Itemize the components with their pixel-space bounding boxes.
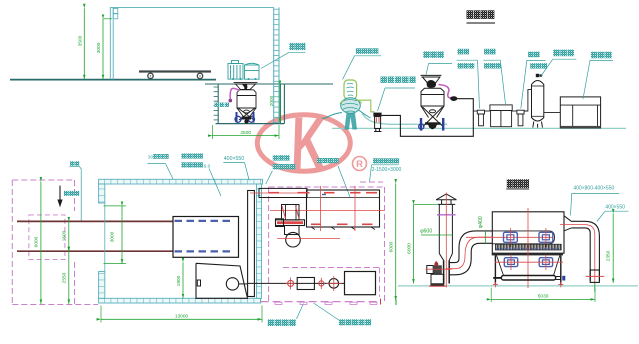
label compressor (591, 52, 598, 59)
pit machine blue frame/wheels (236, 112, 238, 123)
dim 2350 (612, 214, 614, 284)
dim 1800 (182, 262, 184, 298)
svg-text:1800: 1800 (176, 275, 182, 286)
air tank (532, 81, 544, 122)
flexible coupling red (288, 280, 294, 286)
svg-text:3000: 3000 (110, 231, 116, 242)
dim 6000 plan left (40, 182, 42, 305)
label filter1 (458, 49, 464, 55)
svg-text:φ600: φ600 (420, 229, 432, 235)
dim 3000 elevation (103, 18, 112, 20)
breathing filter unit (373, 113, 381, 117)
title dust system (507, 179, 512, 188)
blast hose to nozzle magenta (439, 85, 453, 99)
motor box plan (345, 272, 376, 295)
label air tank (553, 50, 560, 57)
precision filter 2 (517, 110, 524, 114)
magenta loading area boundary (11, 180, 13, 305)
svg-text:R: R (356, 159, 363, 170)
svg-text:6.0: 6.0 (204, 163, 211, 169)
dim 2000 pit depth (279, 85, 281, 123)
dim 1500 rails (68, 221, 70, 251)
svg-text:2500: 2500 (240, 130, 251, 136)
dim 5030 (490, 288, 492, 303)
pit bottom (216, 123, 285, 125)
feet red ticks (493, 284, 498, 286)
pit left wall (217, 84, 219, 124)
tube sheet (496, 244, 562, 250)
chimney stack (436, 194, 457, 284)
machine room plan with circle (196, 263, 248, 298)
box bottom flange (492, 253, 563, 255)
left column (109, 7, 111, 79)
collector box plan (307, 190, 380, 227)
svg-text:φ400: φ400 (478, 216, 484, 228)
label blast room wall (273, 155, 278, 160)
logo registered mark (353, 157, 367, 171)
dim 3500 (83, 8, 85, 79)
dim 2550 (68, 251, 70, 304)
label helmet (356, 48, 362, 54)
dim 6000 stack (414, 203, 438, 205)
label floor steel plate (181, 153, 186, 158)
duct end box (590, 270, 599, 282)
svg-text:2-1500×3000: 2-1500×3000 (372, 167, 402, 173)
svg-text:400×550: 400×550 (605, 204, 625, 210)
fan unit plan (282, 205, 300, 221)
flat cart plan (173, 217, 239, 258)
dim 3000 door opening (104, 205, 127, 207)
label blast machine (423, 51, 430, 58)
svg-text:400×550: 400×550 (224, 156, 244, 162)
svg-text:30: 30 (148, 155, 154, 161)
collector box (492, 212, 564, 253)
label machine + leader (289, 43, 294, 50)
air compressor (560, 97, 600, 128)
ground line elevation (10, 79, 216, 81)
pit right wall (279, 84, 281, 124)
inlet band (492, 231, 554, 244)
label ear room (268, 319, 275, 326)
outlet duct elbow down (571, 221, 599, 281)
label dust fan (317, 158, 322, 163)
pit rim line (205, 83, 333, 85)
green breathing hose (357, 100, 375, 112)
label rails (70, 161, 74, 165)
dust room dashed boundary (269, 186, 385, 188)
label loading zone (64, 191, 69, 196)
svg-text:6000: 6000 (389, 241, 395, 252)
drive line plan (248, 282, 345, 284)
connecting pipes (473, 110, 477, 112)
dashed cart spot (29, 215, 65, 260)
svg-text:5030: 5030 (538, 293, 549, 299)
svg-text:6000: 6000 (34, 236, 40, 247)
precision filter 1 (477, 110, 484, 114)
dim 6000 dust room (395, 184, 397, 301)
motor circle (329, 279, 339, 289)
bottom door dashed line (261, 301, 381, 303)
label accordion door (373, 158, 378, 163)
blast room walls (99, 179, 263, 184)
roof line (110, 6, 273, 8)
svg-text:2000: 2000 (269, 95, 275, 106)
operator figure (344, 80, 357, 99)
legs (494, 255, 496, 284)
red hatch marks plan (269, 192, 280, 194)
arrow down (59, 186, 61, 201)
svg-text:2550: 2550 (62, 272, 68, 283)
svg-text:2350: 2350 (606, 250, 612, 261)
screw conveyor (501, 276, 555, 281)
gearbox rect (297, 278, 314, 290)
label filter2 (528, 52, 534, 58)
svg-text:400×800-400×550: 400×800-400×550 (573, 185, 614, 191)
ground baseline right (332, 127, 626, 129)
operator air hose wavy (362, 114, 447, 125)
freeze dryer (490, 105, 512, 111)
svg-text:3000: 3000 (96, 42, 102, 53)
small coupling red (319, 281, 324, 286)
pit access ladder column (273, 7, 275, 123)
inner dashed boundary drive row (283, 267, 380, 269)
title blast system (467, 10, 474, 19)
svg-text:6000: 6000 (406, 243, 412, 254)
lower pulse boxes (504, 258, 517, 267)
pulse valve boxes upper (504, 232, 518, 242)
svg-text:13000: 13000 (175, 313, 189, 319)
label breathing filter (381, 77, 387, 83)
dim 13000 (100, 306, 102, 323)
label freeze dryer (484, 49, 490, 55)
company logo watermark ellipse (257, 103, 366, 185)
recovery machine on ground (228, 61, 259, 80)
pit machine hose magenta (230, 88, 239, 99)
sliding door panel (248, 191, 255, 297)
outlet transition (564, 216, 571, 222)
S-duct fan to collector (449, 231, 492, 263)
svg-text:1500: 1500 (62, 230, 68, 241)
piping loop (382, 99, 474, 137)
fan unit elevation (427, 266, 433, 274)
svg-text:3500: 3500 (77, 35, 83, 46)
hopper diagonals (497, 255, 504, 275)
label ladder (215, 103, 219, 107)
rails (17, 220, 173, 222)
svg-text:K: K (290, 103, 327, 185)
label one-way door (339, 319, 345, 325)
blast machine elevation (421, 75, 445, 126)
pit blast pot machine (234, 82, 258, 120)
duct to fan plan (259, 188, 307, 197)
ground baseline dust area (398, 285, 638, 287)
dim 2500 pit width (211, 125, 213, 139)
blast machine blue frame (420, 118, 422, 131)
flat cart elevation (139, 70, 211, 72)
